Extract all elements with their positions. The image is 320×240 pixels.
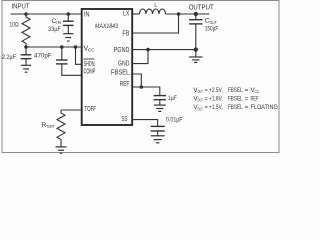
svg-text:GND: GND [118,61,129,68]
svg-text:FLOATING: FLOATING [251,104,278,111]
junction vcc/shdn [74,45,78,49]
wire TOFF [61,109,82,111]
pin label REF [120,81,130,88]
svg-text:0.01µF: 0.01µF [166,117,183,124]
svg-text:TOFF: TOFF [85,106,97,113]
junction input/CIN [67,12,71,16]
resistor R 10ohm [10,14,31,47]
wire inductor to output [166,13,210,15]
junction output/COUT [194,12,198,16]
node INPUT label [12,2,30,11]
svg-text:COMP: COMP [84,68,96,75]
capacitor COUT 150uF [189,14,218,50]
pin label LX [123,11,130,18]
capacitor CIN 33uF [48,14,74,33]
svg-text:TOFF: TOFF [46,124,55,129]
svg-text:= +1.8V,: = +1.8V, [205,95,223,102]
ground under 0.01uF [151,136,165,143]
pin label IN [84,12,90,19]
svg-text:MAX1843: MAX1843 [95,23,118,30]
junction output ground node [194,47,198,51]
svg-text:OUT: OUT [197,89,203,94]
svg-text:INPUT: INPUT [12,2,30,11]
wire FB return [132,14,178,33]
svg-text:2.2µF: 2.2µF [2,54,16,61]
ground output node [189,50,202,63]
junction vcc/470pF [60,45,64,49]
inductor L [140,3,166,14]
svg-text:OUTPUT: OUTPUT [189,2,214,11]
wire GND tie [132,50,148,64]
svg-text:FBSEL: FBSEL [111,70,130,77]
svg-text:= +2.5V,: = +2.5V, [205,87,223,94]
note VOUT options line 2 [193,95,258,102]
capacitor 470pF [34,47,68,64]
svg-text:470pF: 470pF [34,53,52,60]
wire input rail [11,13,82,15]
svg-text:=: = [245,95,249,102]
capacitor 2.2uF [2,47,31,65]
svg-text:OUT: OUT [197,106,203,111]
wire VCC rail [26,46,82,48]
node OUTPUT label [189,2,214,11]
ground under 2.2uF [21,65,31,72]
svg-text:=: = [245,87,249,94]
pin label COMP [84,68,96,75]
pin label PGND [114,47,130,54]
svg-text:CC: CC [255,89,260,94]
wire PGND rail [132,49,196,51]
pin label FBSEL [111,70,130,77]
pin label VCC [84,45,96,52]
wire SS [132,120,158,127]
junction FBSEL/REF [140,85,144,89]
ground under RTOFF [56,147,67,153]
note VOUT options line 1 [193,87,259,94]
svg-text:FBSEL: FBSEL [228,87,243,94]
wire vcc to SHDN pin [76,47,82,64]
svg-text:OUT: OUT [210,20,217,25]
svg-text:REF: REF [251,95,259,102]
svg-text:IN: IN [84,12,90,19]
svg-text:CC: CC [88,48,95,53]
svg-text:1µF: 1µF [168,95,177,102]
svg-text:SHDN: SHDN [84,61,95,68]
capacitor 0.01uF [151,117,183,136]
svg-text:SS: SS [121,116,127,123]
pin label SS [121,116,127,123]
junction vcc/resistor/2.2uF [24,45,28,49]
junction input/resistor [24,12,28,16]
junction PGND/GND tie [146,48,150,52]
wire LX to inductor [132,13,139,15]
ground under CIN [63,34,73,41]
svg-text:LX: LX [123,11,130,18]
resistor RTOFF [41,110,65,147]
note VOUT options line 3 [193,104,278,111]
wire 470pF to COMP [62,64,82,75]
junction LX/FB [177,12,181,16]
svg-text:=: = [245,104,249,111]
svg-text:FBSEL: FBSEL [228,104,243,111]
pin label GND [118,61,129,68]
svg-text:33µF: 33µF [48,26,61,33]
svg-text:REF: REF [120,81,130,88]
svg-text:PGND: PGND [114,47,130,54]
pin label TOFF [85,106,97,113]
svg-text:IN: IN [56,20,61,25]
svg-text:= +1.5V,: = +1.5V, [205,104,223,111]
frame border [2,1,279,153]
svg-text:OUT: OUT [197,98,203,103]
svg-text:10Ω: 10Ω [10,22,19,29]
pin label SHDN with overline [84,59,95,68]
IC U1 MAX1843 box [82,9,133,125]
capacitor 1uF [154,95,177,105]
wire REF rail [132,87,160,95]
svg-text:FBSEL: FBSEL [228,95,243,102]
svg-text:FB: FB [122,31,129,38]
svg-text:L: L [154,3,157,9]
svg-text:150µF: 150µF [205,25,219,32]
ground under 1uF [154,105,166,111]
wire FBSEL to REF [132,74,141,87]
pin label FB [122,31,129,38]
